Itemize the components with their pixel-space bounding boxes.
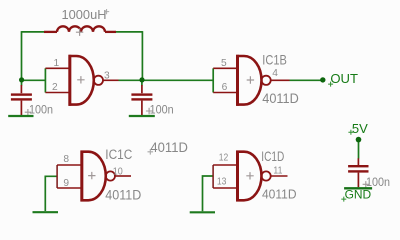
bubble IC1A [94, 76, 103, 85]
origin cross C3 [363, 181, 369, 187]
ground C2 [129, 115, 155, 117]
ground IC1C [33, 211, 59, 213]
svg-text:IC1D: IC1D [261, 148, 284, 164]
svg-text:11: 11 [273, 165, 282, 176]
ground C1 [8, 115, 33, 117]
wire IC1A output to IC1B inputs [119, 79, 214, 81]
op-amp U1 gate IC1B body [213, 52, 299, 107]
svg-text:5: 5 [221, 58, 227, 69]
origin cross IC1D [246, 172, 253, 179]
text origin cross 1000uH [104, 9, 109, 14]
pin 1 stub [45, 67, 69, 69]
origin cross IC1B [247, 76, 254, 83]
wire IC1B input tie [212, 68, 214, 92]
pin 3 stub [103, 79, 119, 81]
op-amp U1 gate IC1A body [45, 55, 118, 106]
pin 9 stub [57, 187, 82, 189]
op-amp U1 gate IC1C body [57, 147, 141, 202]
pin 13 stub [213, 187, 237, 189]
svg-text:4011D: 4011D [105, 186, 141, 202]
svg-text:10: 10 [113, 166, 123, 177]
wire top-left horizontal [22, 31, 45, 33]
svg-text:2: 2 [52, 82, 58, 93]
pin 12 stub [213, 164, 237, 166]
pin 2 stub [45, 92, 69, 94]
svg-text:OUT: OUT [330, 71, 358, 86]
bubble IC1B [262, 76, 271, 85]
pin 4 stub [271, 79, 290, 81]
svg-text:4011D: 4011D [262, 187, 297, 202]
bubble IC1D [262, 171, 271, 180]
ground IC1D [190, 211, 215, 213]
wire junction to IC1A inputs [22, 79, 46, 81]
svg-text:9: 9 [63, 178, 69, 189]
capacitor C1 [11, 85, 32, 115]
svg-text:GND: GND [345, 189, 372, 201]
svg-text:IC1B: IC1B [262, 52, 287, 68]
wire C1 top [21, 80, 23, 85]
wire feedback vertical [141, 31, 143, 80]
svg-text:1000uH: 1000uH [62, 7, 107, 22]
svg-text:4011D: 4011D [262, 90, 299, 106]
svg-text:100n: 100n [29, 102, 53, 116]
wire top-right horizontal [116, 31, 142, 33]
origin cross IC1A [77, 76, 84, 83]
pin 6 stub [213, 92, 237, 94]
pin 11 stub [271, 175, 288, 177]
junction node OUT [320, 77, 325, 82]
wire IC1A input tie [44, 68, 46, 92]
svg-text:3: 3 [104, 70, 110, 81]
svg-text:4011D: 4011D [150, 139, 188, 155]
svg-text:100n: 100n [366, 175, 390, 189]
svg-text:12: 12 [219, 153, 229, 164]
bubble IC1C [106, 171, 115, 180]
capacitor C2 [131, 85, 152, 115]
wire 5V supply [358, 140, 360, 159]
junction node 5V [356, 137, 362, 143]
svg-text:13: 13 [217, 177, 227, 188]
pin 5 stub [213, 67, 237, 69]
op-amp U1 gate IC1D body [213, 148, 296, 202]
tie IC1D inputs [212, 165, 214, 188]
svg-text:8: 8 [63, 154, 69, 165]
wire C2 top [141, 80, 143, 85]
junction node B (feedback/C2) [139, 77, 144, 82]
svg-text:100n: 100n [150, 102, 174, 116]
text origin cross 4011D [148, 149, 154, 155]
svg-text:5V: 5V [352, 121, 368, 136]
wire IC1C input jog [45, 176, 57, 211]
svg-text:6: 6 [222, 82, 228, 93]
capacitor C3 [348, 158, 368, 187]
tie IC1C inputs [56, 165, 58, 188]
ground bar C3 [344, 187, 372, 189]
origin cross IC1C [88, 172, 95, 179]
svg-text:4: 4 [272, 68, 278, 79]
wire IC1B output to OUT [290, 79, 323, 81]
inductor L1 [44, 26, 116, 32]
text origin cross 5V [348, 130, 353, 135]
pin 8 stub [57, 164, 82, 166]
text origin cross OUT [328, 82, 333, 87]
pin 10 stub [115, 175, 131, 177]
junction node A (left) [19, 77, 24, 82]
svg-text:IC1C: IC1C [105, 147, 132, 162]
text origin cross GND [341, 197, 346, 202]
origin cross C1 [25, 109, 31, 115]
origin cross L1 [76, 29, 83, 36]
wire IC1D input jog [203, 176, 214, 211]
svg-text:1: 1 [54, 58, 60, 69]
origin cross C2 [146, 108, 152, 114]
wire top-left vertical [21, 31, 23, 80]
